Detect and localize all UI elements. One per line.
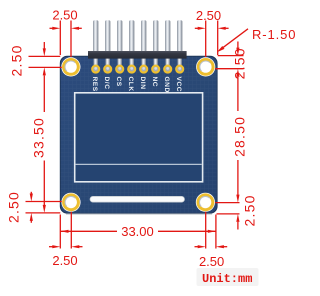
header plastic bar (88, 51, 187, 59)
svg-text:CLK: CLK (127, 77, 134, 92)
dim top-right 2.50 arrows (195, 27, 199, 29)
svg-text:D/C: D/C (103, 77, 110, 90)
board bottom shadow (66, 213, 212, 215)
dim 33.00 line (61, 230, 118, 232)
pin 2 (D/C) metal pin (105, 20, 110, 65)
left extension line board top (29, 55, 61, 57)
svg-text:2.50: 2.50 (52, 8, 77, 23)
solder pad 3 (115, 65, 124, 74)
solder pad 4 (127, 65, 136, 74)
svg-text:2.50: 2.50 (196, 8, 221, 23)
svg-text:28.50: 28.50 (232, 116, 248, 157)
ext line board bottom left (26, 212, 61, 214)
dim top-left 2.50 arrows (50, 27, 55, 29)
pin 7 (GND) metal pin (165, 20, 170, 65)
left extension line top hole center (29, 66, 62, 68)
svg-text:2.50: 2.50 (8, 44, 24, 76)
svg-text:33.00: 33.00 (121, 224, 154, 239)
svg-text:R-1.50: R-1.50 (252, 27, 296, 42)
bottom ext line left hole center (70, 212, 72, 249)
bottom ext line right hole center (205, 212, 207, 249)
solder pad 2 (103, 65, 112, 74)
svg-text:2.50: 2.50 (241, 194, 257, 226)
bottom ext line board left edge (59, 215, 61, 249)
right ext line top hole center (215, 68, 243, 70)
mounting hole top-left (61, 57, 80, 76)
dim right bottom 2.50 arrows (237, 222, 239, 230)
solder pad 5 (139, 65, 148, 74)
mounting hole top-right (196, 57, 215, 76)
dim 33.50 line (43, 75, 45, 112)
pin 5 (DIN) metal pin (141, 20, 146, 65)
pin 3 (CS) metal pin (117, 20, 122, 65)
solder pad 6 (151, 65, 160, 74)
pin 1 (RES) metal pin (93, 20, 98, 65)
right ext line bottom hole center (215, 202, 239, 204)
svg-text:33.50: 33.50 (31, 117, 47, 158)
svg-text:2.50: 2.50 (232, 47, 248, 79)
svg-text:CS: CS (115, 77, 122, 87)
pin 4 (CLK) metal pin (129, 20, 134, 65)
svg-text:2.50: 2.50 (199, 254, 224, 269)
ext line bottom hole center left (26, 201, 62, 203)
OLED display glass (75, 93, 203, 182)
mounting hole bottom-left (61, 193, 80, 212)
dim left 2.50 arrows (43, 42, 45, 49)
svg-text:2.50: 2.50 (52, 253, 77, 268)
right ext line board bottom (217, 213, 240, 215)
dim 28.50 line (237, 77, 239, 111)
dim bottom-right 2.50 arrows (195, 246, 199, 248)
svg-text:GND: GND (163, 77, 170, 93)
mounting hole bottom-right (196, 193, 215, 212)
right ext line board top (218, 55, 244, 57)
display divider line (76, 163, 202, 165)
bottom ext line board right edge (215, 215, 217, 249)
dim bottom-left 2.50 arrows (49, 246, 53, 248)
dim bottom-left vertical 2.50 arrows (30, 192, 32, 194)
svg-text:VCC: VCC (175, 77, 182, 93)
svg-text:NC: NC (151, 77, 158, 88)
solder pad 7 (163, 65, 172, 74)
solder pad 1 (91, 65, 100, 74)
flex connector slot (90, 196, 185, 202)
PCB board (60, 56, 217, 213)
dim top-left 2.50 extension lines (59, 21, 61, 56)
dim right 2.50 arrows top (237, 42, 239, 49)
svg-text:RES: RES (91, 77, 98, 92)
svg-text:2.50: 2.50 (5, 191, 21, 223)
pin 6 (NC) metal pin (153, 20, 158, 65)
unit label background (197, 268, 259, 286)
pin 8 (VCC) metal pin (177, 20, 182, 65)
svg-text:Unit:mm: Unit:mm (202, 272, 252, 286)
corner radius leader R-1.50 (220, 29, 249, 50)
solder pad 8 (175, 65, 184, 74)
svg-text:DIN: DIN (139, 77, 146, 90)
dim top-right 2.50 extension lines (205, 21, 207, 58)
